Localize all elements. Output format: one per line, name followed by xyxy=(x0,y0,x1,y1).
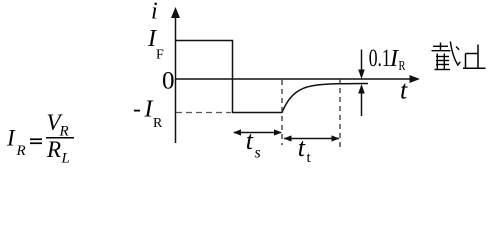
svg-text:0.1: 0.1 xyxy=(369,45,391,72)
svg-text:-: - xyxy=(133,97,141,123)
svg-text:t: t xyxy=(400,76,408,105)
svg-text:L: L xyxy=(61,151,70,167)
svg-text:R: R xyxy=(399,59,406,74)
svg-text:R: R xyxy=(46,137,61,162)
svg-text:I: I xyxy=(6,125,16,150)
svg-text:I: I xyxy=(144,97,154,123)
svg-text:i: i xyxy=(151,0,158,25)
svg-text:t: t xyxy=(298,133,306,162)
svg-text:0: 0 xyxy=(162,68,175,95)
svg-text:s: s xyxy=(255,145,261,162)
svg-text:F: F xyxy=(156,48,164,63)
svg-text:I: I xyxy=(389,46,399,72)
svg-text:R: R xyxy=(16,143,26,159)
svg-text:t: t xyxy=(246,126,254,155)
svg-text:R: R xyxy=(153,116,163,131)
svg-text:t: t xyxy=(307,150,312,166)
